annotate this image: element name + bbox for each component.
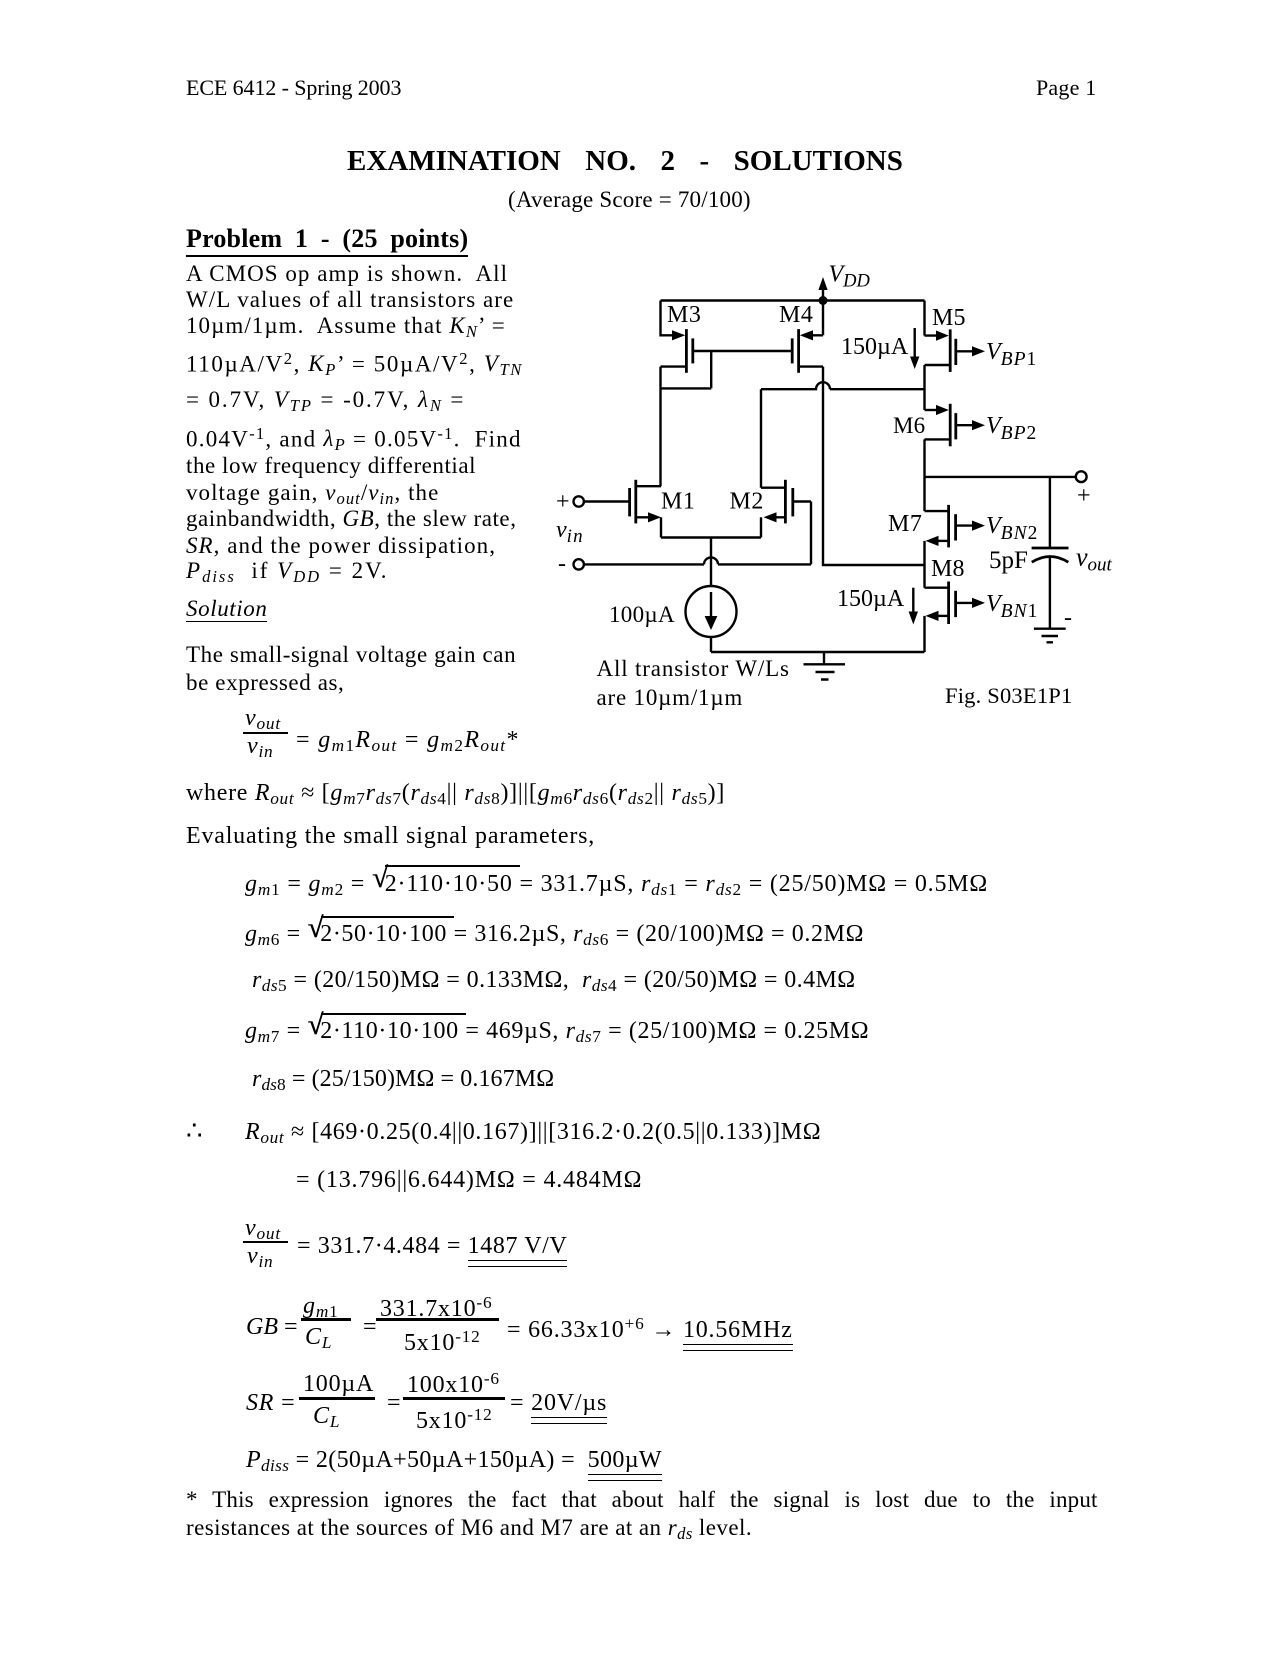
Solution heading xyxy=(186,597,267,622)
svg-text:M5: M5 xyxy=(932,305,966,331)
svg-text:M1: M1 xyxy=(661,489,695,515)
title xyxy=(347,147,903,176)
transistor M4 xyxy=(792,329,823,373)
therefore Rout line xyxy=(186,1118,203,1144)
rds8 line xyxy=(252,1067,554,1093)
svg-text:M2: M2 xyxy=(730,489,764,515)
problem paragraph xyxy=(186,262,508,285)
power VDD arrow xyxy=(818,277,827,301)
svg-text:vout: vout xyxy=(1076,543,1113,576)
svg-text:M6: M6 xyxy=(893,413,925,438)
gm1 line xyxy=(385,865,520,867)
svg-text:150µA: 150µA xyxy=(841,334,909,360)
wire tail join xyxy=(661,536,761,538)
rds5 line xyxy=(252,968,856,994)
gm6 line xyxy=(321,916,454,918)
current arrow 150uA upper xyxy=(910,328,919,369)
ground main xyxy=(804,652,846,680)
wire M3 drain down to M1 drain xyxy=(659,367,661,487)
wire output node xyxy=(925,476,1077,478)
wire current source to ground rail xyxy=(711,637,925,652)
transistor M1 xyxy=(630,480,661,524)
svg-text:vin: vin xyxy=(556,517,584,547)
where Rout line xyxy=(186,781,725,807)
wire VDD rail xyxy=(661,299,925,301)
Pdiss line xyxy=(246,1448,662,1474)
svg-text:VBP2: VBP2 xyxy=(986,413,1036,444)
svg-text:M4: M4 xyxy=(779,302,813,328)
wire capacitor tap xyxy=(1049,477,1051,548)
svg-text:M8: M8 xyxy=(931,556,965,582)
svg-text:M7: M7 xyxy=(888,511,922,537)
wire node B vertical xyxy=(923,541,925,588)
svg-text:VBN1: VBN1 xyxy=(986,591,1037,622)
svg-text:M3: M3 xyxy=(667,302,701,328)
wire M4 drain to node B xyxy=(823,367,925,565)
wire M3 gate-drain tie xyxy=(661,351,712,388)
svg-text:Fig. S03E1P1: Fig. S03E1P1 xyxy=(945,683,1072,708)
header xyxy=(186,77,401,99)
SR line xyxy=(246,1391,295,1415)
wire M6 drain to output node xyxy=(923,439,925,477)
wire M4 source from rail xyxy=(822,301,824,336)
svg-text:VBP1: VBP1 xyxy=(986,339,1036,370)
transistor M3 xyxy=(661,329,693,373)
wire M3 source from rail xyxy=(661,301,673,336)
svg-text:-: - xyxy=(558,551,566,577)
transistor M2 xyxy=(761,480,811,524)
svg-text:-: - xyxy=(1064,605,1072,631)
svg-text:100µA: 100µA xyxy=(609,602,675,627)
svg-text:VDD: VDD xyxy=(829,262,871,292)
input + terminal xyxy=(574,496,629,506)
wire M1 source down xyxy=(660,517,662,537)
svg-text:+: + xyxy=(1077,483,1091,509)
svg-text:are 10µm/1µm: are 10µm/1µm xyxy=(597,685,744,710)
svg-text:All transistor W/Ls: All transistor W/Ls xyxy=(597,656,790,681)
wire tail down to current source xyxy=(710,538,712,587)
wire M5 drain to M6 source xyxy=(923,365,925,410)
svg-text:+: + xyxy=(556,489,570,515)
footnote xyxy=(186,1488,1098,1511)
node VDD junction dot xyxy=(819,296,828,305)
svg-text:150µA: 150µA xyxy=(837,586,905,612)
capacitor CL xyxy=(1032,548,1069,629)
equation 1: vout/vin = gm1 Rout = gm2 Rout* xyxy=(245,706,281,732)
gm7 line xyxy=(321,1013,466,1015)
current source I1 xyxy=(686,586,737,637)
transistor M6 xyxy=(925,404,986,447)
wire M3 gate to M4 gate xyxy=(693,350,792,352)
output terminal xyxy=(1076,471,1087,482)
wire M8 source down to rail xyxy=(923,616,925,652)
vout/vin = 331.7*4.484 xyxy=(245,1216,281,1242)
svg-text:VBN2: VBN2 xyxy=(986,513,1037,544)
transistor M5 xyxy=(925,301,986,372)
ground at capacitor xyxy=(1034,629,1066,643)
transistor M8 xyxy=(925,582,986,625)
current arrow 150uA lower xyxy=(909,588,918,625)
wire M2 gate down to - input xyxy=(810,502,812,565)
wire M2 drain to node A (hop over M4 drain) xyxy=(761,382,925,487)
svg-text:5pF: 5pF xyxy=(989,547,1028,574)
input - terminal xyxy=(574,557,812,569)
GB line xyxy=(246,1315,298,1339)
wire M2 source down xyxy=(760,517,762,537)
transistor M7 xyxy=(925,477,986,548)
